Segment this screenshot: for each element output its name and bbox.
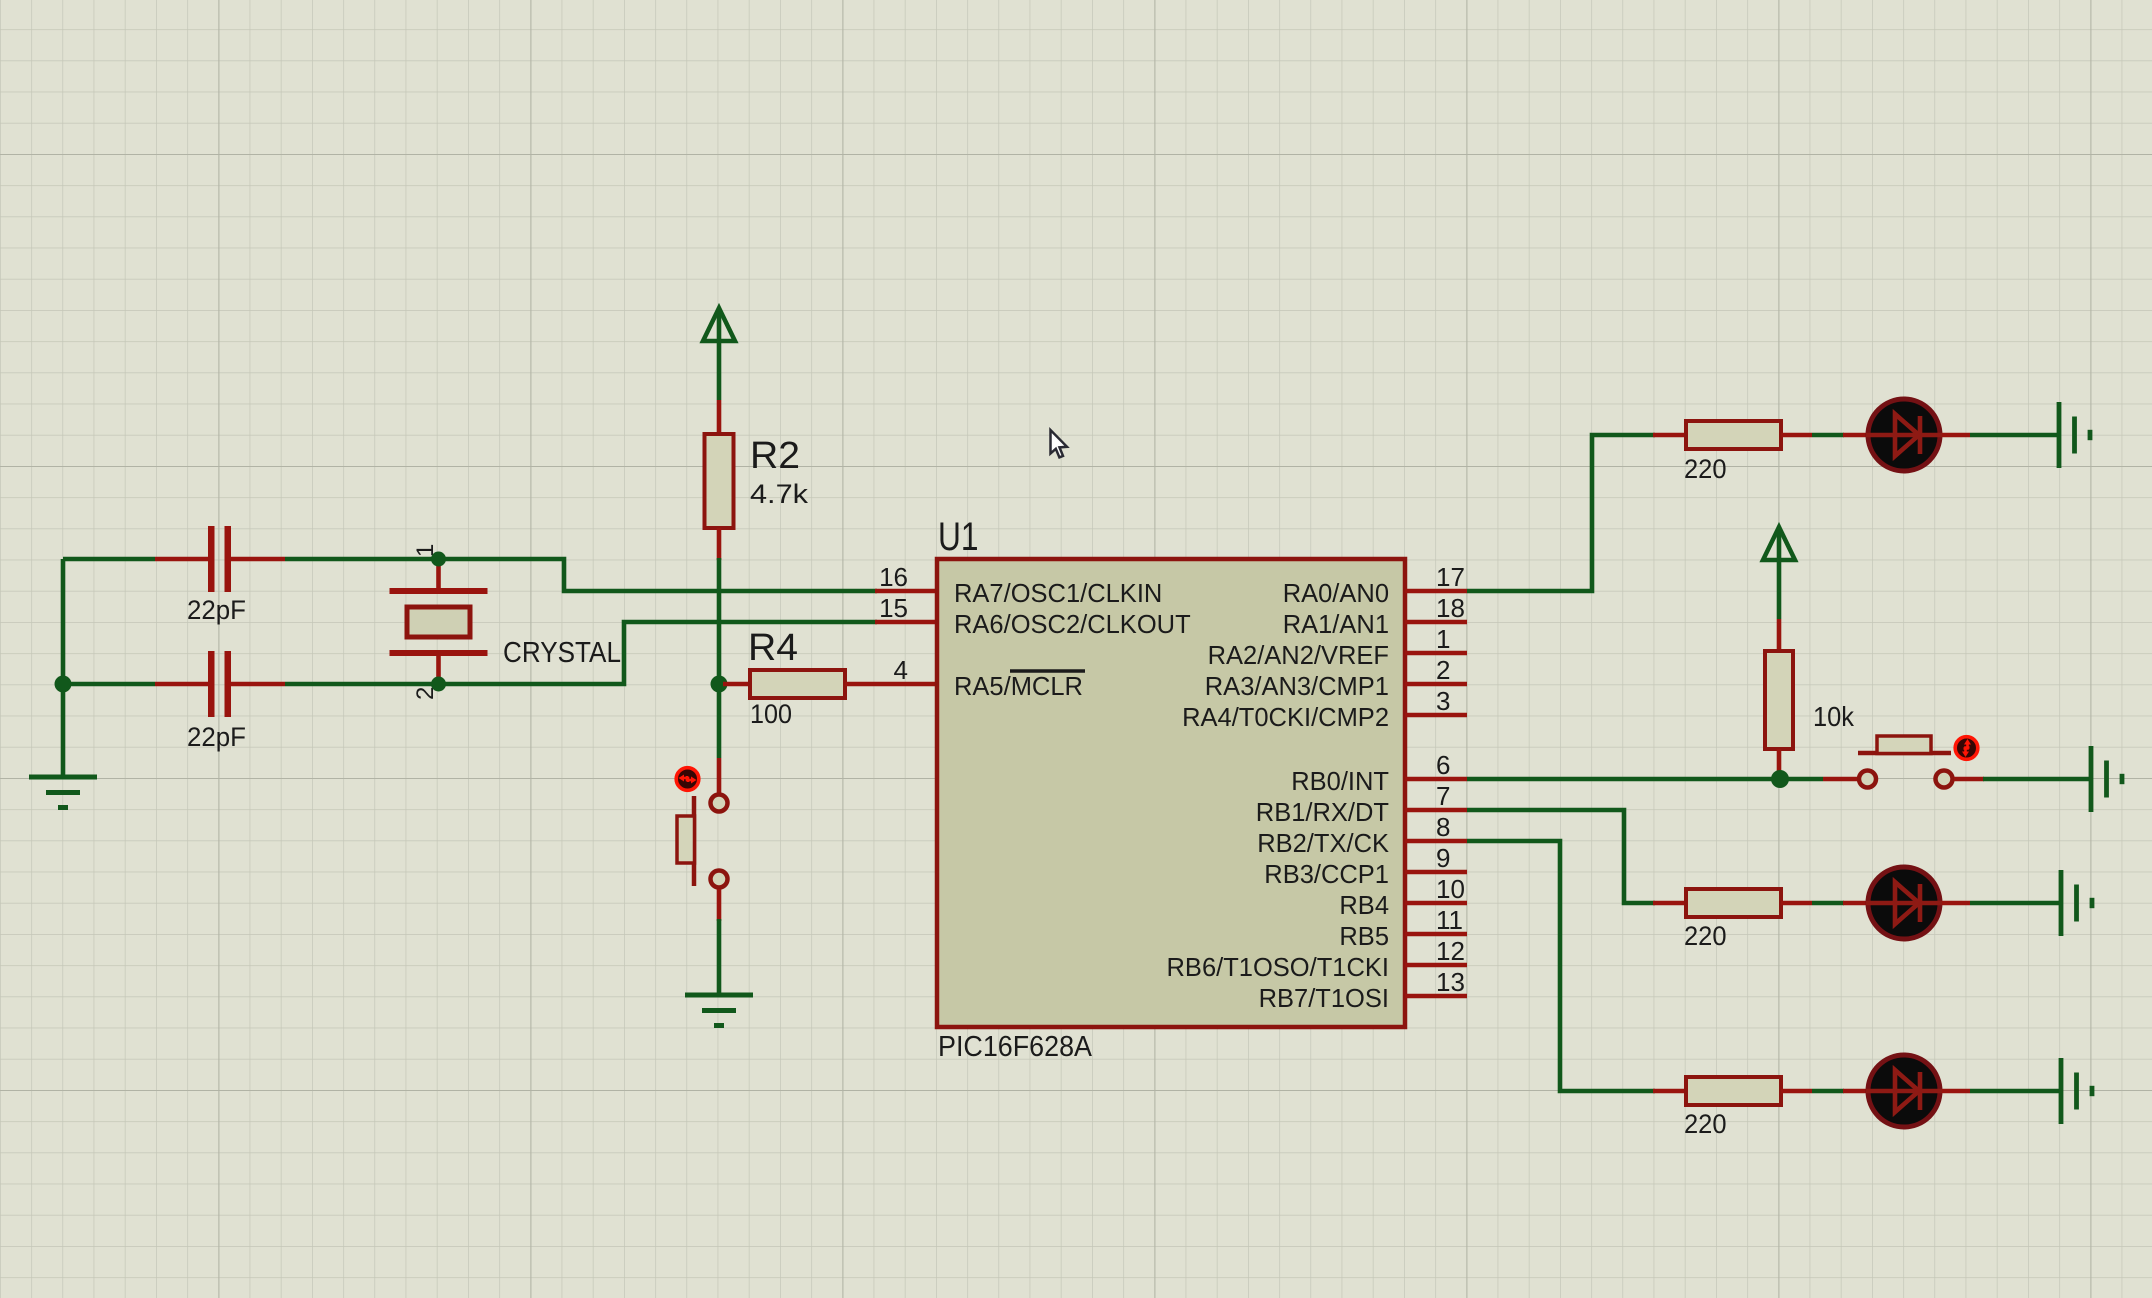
wire LED D1 to ground (1970, 433, 2059, 438)
svg-text:RA1/AN1: RA1/AN1 (1283, 611, 1389, 639)
svg-text:15: 15 (879, 593, 908, 623)
wire MCLR to button S1 (717, 684, 722, 758)
R row1 left pin (1653, 433, 1686, 438)
svg-text:6: 6 (1436, 750, 1450, 780)
svg-text:RA6/OSC2/CLKOUT: RA6/OSC2/CLKOUT (954, 611, 1191, 639)
button S2 terminal left (1859, 771, 1876, 788)
svg-text:18: 18 (1436, 593, 1465, 623)
ground LED row3 (2061, 1058, 2092, 1124)
svg-text:4.7k: 4.7k (750, 479, 809, 509)
svg-text:RB5: RB5 (1339, 923, 1389, 951)
wire R2 to MCLR node (717, 558, 722, 686)
svg-text:13: 13 (1436, 967, 1465, 997)
ground LED row2 (2061, 870, 2092, 936)
LED D1 (1866, 399, 1942, 471)
wire C2 right pin (231, 682, 285, 687)
wire C1 right pin (231, 557, 285, 562)
pin 6 stub (1405, 777, 1467, 782)
wire R to LED row1 (1812, 433, 1844, 438)
LED D3 anode pin (1843, 1089, 1866, 1094)
svg-text:R2: R2 (750, 435, 800, 477)
pin 13 stub (1405, 994, 1467, 999)
svg-text:4: 4 (894, 655, 908, 685)
R2 bottom pin (717, 528, 722, 560)
svg-text:RA2/AN2/VREF: RA2/AN2/VREF (1208, 642, 1389, 670)
button S2 right pin (1954, 777, 1984, 782)
svg-text:100: 100 (750, 699, 792, 729)
button S1 actuator (677, 796, 695, 886)
wire C2 left pin (155, 682, 208, 687)
svg-text:RB0/INT: RB0/INT (1291, 768, 1389, 796)
svg-text:RB4: RB4 (1339, 892, 1389, 920)
wire button S2 to ground (1983, 777, 2091, 782)
pin 16 stub (875, 589, 937, 594)
svg-text:22pF: 22pF (187, 722, 246, 752)
pin 17 stub (1405, 589, 1467, 594)
resistor R 220 row3 (1686, 1077, 1781, 1105)
LED D1 cathode pin (1942, 433, 1970, 438)
svg-text:R4: R4 (748, 627, 798, 669)
op-amp U1 PIC16F628A body (937, 559, 1405, 1027)
pin 11 stub (1405, 932, 1467, 937)
crystal pin 2 wire (436, 653, 441, 680)
svg-text:9: 9 (1436, 843, 1450, 873)
svg-text:10k: 10k (1813, 701, 1855, 732)
R row3 left pin (1653, 1089, 1686, 1094)
svg-text:17: 17 (1436, 562, 1465, 592)
LED D3 cathode pin (1942, 1089, 1970, 1094)
ground LED row1 (2059, 402, 2090, 468)
resistor R 10k (1765, 651, 1793, 749)
svg-text:RA4/T0CKI/CMP2: RA4/T0CKI/CMP2 (1182, 704, 1389, 732)
wire OSC1 to crystal pin1 (285, 557, 441, 562)
wire OSC2 to U1 pin15 (439, 622, 877, 684)
pin 18 stub (1405, 620, 1467, 625)
svg-text:RB3/CCP1: RB3/CCP1 (1264, 861, 1389, 889)
R row2 right pin (1781, 901, 1812, 906)
wire R to LED row2 (1812, 901, 1844, 906)
svg-text:RB2/TX/CK: RB2/TX/CK (1257, 830, 1389, 858)
LED D2 (1866, 867, 1942, 939)
junction crystal pin2 (431, 677, 446, 692)
R 10k bottom pin (1777, 749, 1782, 782)
svg-text:22pF: 22pF (187, 595, 246, 625)
R4 left pin (723, 682, 750, 687)
wire OSC1 left (63, 557, 155, 562)
ground left (29, 777, 97, 808)
svg-text:220: 220 (1684, 1109, 1727, 1139)
svg-text:8: 8 (1436, 812, 1450, 842)
ground below button S1 (685, 995, 753, 1026)
svg-text:220: 220 (1684, 921, 1727, 951)
power VCC arrow 10k (1763, 527, 1795, 560)
wire C1 left pin (155, 557, 208, 562)
wire ground left vertical (61, 559, 66, 777)
resistor R 220 row2 (1686, 889, 1781, 917)
power VCC arrow R2 (703, 308, 735, 341)
svg-text:RB6/T1OSO/T1CKI: RB6/T1OSO/T1CKI (1167, 954, 1389, 982)
capacitor C2 22pF (208, 651, 231, 717)
svg-text:12: 12 (1436, 936, 1465, 966)
pin 9 stub (1405, 870, 1467, 875)
svg-text:RB7/T1OSI: RB7/T1OSI (1259, 985, 1389, 1013)
button S1 actuator marker (676, 768, 699, 791)
svg-text:U1: U1 (938, 515, 979, 559)
LED D3 (1866, 1055, 1942, 1127)
wire pin8 to R 220 row3 (1467, 841, 1655, 1091)
svg-text:RA7/OSC1/CLKIN: RA7/OSC1/CLKIN (954, 580, 1162, 608)
button S2 actuator (1858, 736, 1951, 754)
svg-text:7: 7 (1436, 781, 1450, 811)
svg-text:PIC16F628A: PIC16F628A (938, 1031, 1093, 1063)
resistor R2 (705, 434, 734, 528)
wire button S1 to ground (717, 919, 722, 995)
wire OSC2 to crystal pin2 (285, 682, 441, 687)
LED D2 cathode pin (1942, 901, 1970, 906)
MCLR overline (1010, 669, 1085, 673)
button S1 top pin (717, 758, 722, 793)
mouse cursor (1051, 430, 1068, 457)
svg-text:2: 2 (1436, 655, 1450, 685)
svg-text:11: 11 (1436, 905, 1463, 935)
button S1 terminal bottom (711, 871, 728, 888)
crystal pin 1 wire (436, 563, 441, 591)
R row3 right pin (1781, 1089, 1812, 1094)
crystal X1 (390, 588, 488, 656)
pin 2 stub (1405, 682, 1467, 687)
junction MCLR node (711, 676, 728, 693)
LED D2 anode pin (1843, 901, 1866, 906)
pin 10 stub (1405, 901, 1467, 906)
resistor R 220 row1 (1686, 421, 1781, 449)
R 10k top pin (1777, 619, 1782, 651)
svg-text:10: 10 (1436, 874, 1465, 904)
junction RB0 node (1771, 770, 1789, 788)
R4 right pin / pin 4 stub (845, 682, 937, 687)
button S2 terminal right (1936, 771, 1953, 788)
wire pin17 to R 220 row1 (1467, 435, 1655, 591)
pin 7 stub (1405, 808, 1467, 813)
svg-text:RA5/MCLR: RA5/MCLR (954, 673, 1083, 701)
pin 12 stub (1405, 963, 1467, 968)
wire VCC to R 10k (1777, 530, 1782, 619)
pin 15 stub (875, 620, 937, 625)
svg-text:CRYSTAL: CRYSTAL (503, 637, 621, 669)
svg-text:RA0/AN0: RA0/AN0 (1283, 580, 1389, 608)
svg-text:3: 3 (1436, 686, 1450, 716)
wire LED D2 to ground (1970, 901, 2061, 906)
wire R to LED row3 (1812, 1089, 1844, 1094)
ground button S2 (2091, 746, 2122, 812)
wire OSC2 left (63, 682, 155, 687)
wire OSC1 to U1 pin16 (439, 559, 877, 591)
svg-text:1: 1 (1436, 624, 1450, 654)
resistor R4 (750, 670, 845, 698)
junction left ground node (55, 676, 72, 693)
svg-text:RB1/RX/DT: RB1/RX/DT (1256, 799, 1389, 827)
svg-text:16: 16 (879, 562, 908, 592)
svg-text:220: 220 (1684, 454, 1727, 484)
button S2 actuator marker (1955, 737, 1978, 760)
R row2 left pin (1653, 901, 1686, 906)
wire pin7 to R 220 row2 (1467, 810, 1655, 903)
button S1 bottom pin (717, 889, 722, 921)
wire pin6 RB0 to button S2 (1467, 777, 1823, 782)
button S1 terminal top (711, 795, 728, 812)
R row1 right pin (1781, 433, 1812, 438)
wire VCC to R2 (717, 311, 722, 400)
pin 1 stub (1405, 651, 1467, 656)
pin 8 stub (1405, 839, 1467, 844)
R2 top pin (717, 400, 722, 434)
LED D1 anode pin (1843, 433, 1866, 438)
junction crystal pin1 (431, 552, 446, 567)
wire LED D3 to ground (1970, 1089, 2061, 1094)
pin 3 stub (1405, 713, 1467, 718)
capacitor C1 22pF (208, 526, 231, 592)
button S2 left pin (1823, 777, 1858, 782)
svg-text:RA3/AN3/CMP1: RA3/AN3/CMP1 (1205, 673, 1389, 701)
